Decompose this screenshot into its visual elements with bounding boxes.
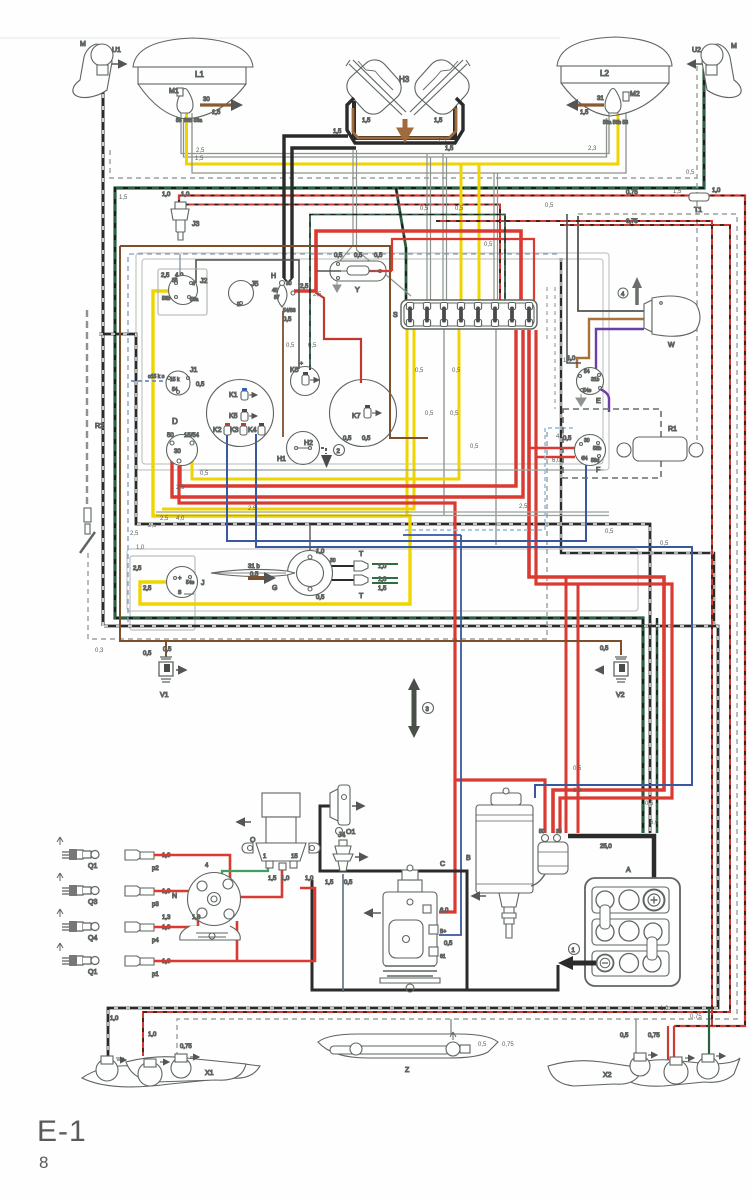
- wire red-black dashed inner right line: [436, 221, 712, 1026]
- svg-text:1,0: 1,0: [563, 358, 572, 364]
- svg-text:0,5: 0,5: [452, 368, 461, 374]
- svg-text:54: 54: [172, 387, 178, 393]
- svg-text:30: 30: [330, 558, 336, 564]
- svg-text:1,0: 1,0: [712, 188, 721, 194]
- svg-text:0,5: 0,5: [660, 541, 669, 547]
- wire light blue dashed to fuel gauge: [405, 428, 575, 530]
- svg-text:p1: p1: [152, 972, 159, 978]
- svg-text:X2: X2: [603, 1072, 612, 1079]
- connector V1: [143, 647, 186, 699]
- svg-text:T: T: [359, 551, 364, 558]
- wire red pair drop to tail X2: [668, 1026, 674, 1062]
- svg-text:K4: K4: [248, 427, 257, 434]
- brake light switch J3: [162, 192, 200, 240]
- svg-text:0,5: 0,5: [163, 647, 172, 653]
- svg-text:1,0: 1,0: [378, 577, 387, 583]
- fuel sender J: [133, 566, 205, 598]
- wire green-black dashed branch to starter area: [656, 618, 659, 833]
- svg-text:0,75: 0,75: [180, 1044, 192, 1050]
- wire green-black dashed K6 up to band across to fuse funnel: [310, 215, 505, 371]
- svg-text:6,0: 6,0: [440, 908, 449, 914]
- frame dashboard grey box: [136, 253, 609, 470]
- wire black-white dashed J1 loop to middle band and solenoid: [99, 334, 650, 833]
- svg-text:0,5: 0,5: [563, 436, 572, 442]
- svg-text:0,75: 0,75: [648, 1033, 660, 1039]
- svg-text:B: B: [466, 855, 471, 862]
- svg-text:1,5: 1,5: [362, 118, 371, 124]
- svg-text:31 b: 31 b: [248, 564, 260, 570]
- svg-text:0,75: 0,75: [626, 219, 638, 225]
- svg-text:Q4: Q4: [88, 935, 97, 942]
- svg-text:45: 45: [272, 288, 278, 294]
- svg-text:54/86: 54/86: [283, 308, 296, 314]
- switch J5: [229, 281, 259, 309]
- wire red-black dashed brake switch J3 to fuse T1 right edge down: [179, 196, 745, 1027]
- svg-text:15 k: 15 k: [170, 377, 180, 383]
- wire grey G top pin: [309, 524, 311, 551]
- svg-text:0,5: 0,5: [420, 206, 429, 212]
- ignition switch D: [167, 417, 200, 466]
- svg-text:M1: M1: [169, 88, 179, 95]
- svg-text:0,5: 0,5: [250, 572, 259, 578]
- wire red band to generator D+: [179, 466, 455, 912]
- svg-text:50: 50: [167, 433, 174, 439]
- svg-text:56a 56b 58: 56a 56b 58: [603, 120, 628, 126]
- svg-text:K6: K6: [290, 367, 299, 374]
- connector O1: [330, 785, 364, 836]
- wire red Y relay band to fuse 8: [392, 239, 534, 302]
- connectors T right of G: [354, 551, 387, 600]
- svg-text:0,75: 0,75: [502, 1042, 514, 1048]
- svg-text:1,0: 1,0: [136, 545, 145, 551]
- svg-text:30: 30: [174, 449, 181, 455]
- svg-text:15/54: 15/54: [184, 433, 200, 439]
- indicator K7: [330, 380, 397, 447]
- svg-text:2,5: 2,5: [300, 284, 309, 290]
- svg-text:0,75: 0,75: [626, 190, 638, 196]
- svg-text:S: S: [393, 312, 398, 319]
- svg-text:2,5: 2,5: [143, 586, 152, 592]
- svg-text:0,5: 0,5: [283, 317, 292, 323]
- wire red stubs into fuel gauge F: [529, 448, 575, 457]
- svg-text:K3: K3: [230, 427, 239, 434]
- wiper motor W: [644, 296, 700, 349]
- wire black horn H3 left leg to dimmer H: [354, 101, 455, 138]
- svg-text:0,75: 0,75: [690, 1014, 702, 1020]
- svg-text:1,0: 1,0: [305, 876, 314, 882]
- svg-text:0,5: 0,5: [470, 444, 479, 450]
- horn U2: [688, 43, 741, 98]
- generator C: [365, 861, 453, 992]
- svg-text:0,5: 0,5: [334, 253, 343, 259]
- wire green-black dashed top loop U2 to left side down to solenoid: [115, 68, 704, 833]
- svg-text:0,5: 0,5: [545, 203, 554, 209]
- svg-text:1,0: 1,0: [192, 915, 201, 921]
- BOTTOM COMPONENTS: [57, 785, 740, 1087]
- plug connector p2: [125, 850, 171, 872]
- svg-text:1,5: 1,5: [212, 110, 221, 116]
- tail lights X2: [548, 1033, 740, 1086]
- svg-text:W: W: [668, 342, 675, 349]
- wire red-black dashed right lower line to X1: [143, 225, 730, 1056]
- wire grey H3 legs down to fuse funnel: [340, 150, 411, 296]
- svg-text:2,5: 2,5: [130, 531, 139, 537]
- fuel gauge F: [563, 435, 606, 475]
- svg-text:56: 56: [172, 278, 178, 284]
- svg-text:0,5: 0,5: [286, 343, 295, 349]
- svg-text:J: J: [201, 580, 205, 587]
- svg-text:p3: p3: [152, 902, 159, 908]
- indicator K6: [290, 361, 320, 396]
- svg-text:1,5: 1,5: [333, 129, 342, 135]
- svg-text:0,5: 0,5: [478, 1042, 487, 1048]
- svg-text:58b: 58b: [593, 446, 602, 452]
- wire yellow fuse 5 exit to mid band: [162, 328, 414, 509]
- svg-text:30: 30: [584, 438, 590, 444]
- wire yellow M1 to M2: [187, 113, 619, 164]
- svg-text:D: D: [172, 417, 178, 426]
- svg-text:0,5: 0,5: [645, 801, 654, 807]
- svg-text:0,5: 0,5: [484, 242, 493, 248]
- wire red fuse 8 to starter loop outer: [529, 330, 664, 833]
- svg-text:58d: 58d: [591, 458, 600, 464]
- svg-text:O: O: [250, 837, 256, 844]
- svg-text:U1: U1: [112, 47, 121, 54]
- svg-text:61: 61: [440, 954, 446, 960]
- wire blue K2 drop to fuel gauge F: [227, 434, 586, 541]
- antenna R2: [80, 310, 104, 553]
- svg-text:1,0: 1,0: [110, 1016, 119, 1022]
- wiper switch E: [567, 356, 604, 406]
- svg-text:30: 30: [286, 281, 292, 287]
- svg-text:J3: J3: [192, 221, 200, 228]
- wire grey dark wiper feed and grey dashed right 0,75 line to X1: [578, 216, 644, 311]
- wire blue to generator B+: [403, 535, 461, 935]
- svg-text:1,0: 1,0: [162, 192, 171, 198]
- svg-text:2,5: 2,5: [160, 516, 169, 522]
- svg-text:1,0: 1,0: [660, 1006, 669, 1012]
- headlight L1: [133, 38, 253, 119]
- svg-text:58: 58: [176, 118, 182, 124]
- svg-text:2,5: 2,5: [148, 523, 157, 529]
- svg-text:F: F: [596, 467, 600, 474]
- svg-text:o15 k o: o15 k o: [148, 374, 165, 380]
- svg-text:50: 50: [539, 829, 545, 835]
- wire blue K4 long loop to right side starter: [256, 434, 692, 798]
- svg-text:0,5: 0,5: [196, 382, 205, 388]
- svg-text:1,0: 1,0: [378, 564, 387, 570]
- svg-text:+: +: [178, 576, 182, 582]
- svg-text:E-1: E-1: [37, 1115, 87, 1148]
- svg-text:0,5: 0,5: [444, 941, 453, 947]
- wire green drop to X2 right bulb: [708, 1008, 710, 1060]
- svg-text:25,0: 25,0: [600, 844, 612, 850]
- svg-text:K2: K2: [213, 427, 222, 434]
- wire brown stub V1: [165, 641, 167, 657]
- svg-text:54e: 54e: [186, 580, 195, 586]
- distributor N: [162, 863, 241, 940]
- wire grey mid band: [199, 469, 604, 471]
- svg-text:0,5: 0,5: [143, 651, 152, 657]
- svg-text:H: H: [271, 273, 276, 280]
- headlight L2: [557, 37, 672, 116]
- svg-text:p4: p4: [152, 938, 159, 944]
- svg-text:54: 54: [584, 369, 590, 375]
- wire labels scattered: [95, 138, 702, 1048]
- svg-text:J1: J1: [190, 367, 198, 374]
- relay J2: [158, 254, 208, 315]
- svg-text:0,5: 0,5: [425, 411, 434, 417]
- wire red-black dashed J3 second to fuse 6: [184, 205, 500, 302]
- starter B: [466, 788, 612, 938]
- horn U1: [73, 41, 126, 98]
- svg-text:R2: R2: [95, 423, 104, 430]
- svg-text:2,3: 2,3: [588, 146, 597, 152]
- wire grey J4 sender down: [342, 874, 344, 992]
- arrow 3 double: [408, 678, 434, 738]
- svg-text:2,5: 2,5: [176, 485, 185, 491]
- svg-text:0,5: 0,5: [354, 253, 363, 259]
- wire yellow ignition 15/54 to fuse 4: [192, 328, 459, 479]
- battery A: [585, 867, 680, 986]
- svg-text:K7: K7: [352, 413, 361, 420]
- wire grey dashed antenna lead R2 to radio R1: [88, 432, 547, 639]
- svg-text:C: C: [440, 861, 445, 868]
- svg-text:M2: M2: [630, 91, 640, 98]
- svg-text:0,5: 0,5: [620, 1033, 629, 1039]
- svg-text:H1: H1: [277, 456, 286, 463]
- svg-text:H3: H3: [399, 75, 410, 84]
- wire red ignition D 30 to fuse 7: [180, 330, 516, 486]
- instrument cluster big circle K1-K5: [207, 380, 274, 447]
- plug connector p3: [125, 886, 171, 908]
- svg-text:30: 30: [556, 829, 562, 835]
- wire black coil O1 down and right: [320, 806, 467, 990]
- wire black-white dashed from horn U1 down left side to bottom bundle: [102, 70, 105, 626]
- tail lights X1: [82, 1016, 260, 1087]
- svg-text:0,5: 0,5: [308, 343, 317, 349]
- wire black-white dashed lower frame line to right bundle: [104, 626, 718, 1056]
- svg-text:0,5: 0,5: [600, 646, 609, 652]
- sheet number E-1: [37, 1115, 87, 1172]
- wire yellow drops to fuse 4 and 5: [460, 164, 463, 301]
- svg-text:0,5: 0,5: [316, 595, 325, 601]
- svg-text:2,5: 2,5: [248, 506, 257, 512]
- wire brown band across to lamp switch area: [120, 246, 428, 438]
- svg-text:4,0: 4,0: [176, 516, 185, 522]
- svg-text:0,5: 0,5: [573, 766, 582, 772]
- svg-text:54e: 54e: [583, 388, 592, 394]
- dimmer switch H: [271, 273, 309, 323]
- svg-text:V1: V1: [160, 692, 169, 699]
- svg-text:N: N: [172, 893, 177, 900]
- bulb M2: [568, 89, 640, 127]
- svg-text:p2: p2: [152, 866, 159, 872]
- svg-text:6,0: 6,0: [573, 788, 582, 794]
- oil pressure sender J4: [325, 832, 367, 886]
- wire grey drop to X2 left bulb: [635, 1019, 637, 1057]
- ignition coil O: [237, 793, 320, 882]
- flasher relay Y: [317, 253, 392, 294]
- svg-text:0,5: 0,5: [200, 471, 209, 477]
- wire grey M1 to M2 top line: [181, 113, 609, 154]
- svg-text:56a: 56a: [190, 297, 199, 303]
- svg-text:1,3: 1,3: [162, 915, 171, 921]
- svg-text:15: 15: [291, 854, 298, 860]
- wire red fuse loop inner: [536, 330, 672, 833]
- spark plug Q4: [57, 909, 99, 942]
- wire red junction to solenoid: [455, 780, 545, 833]
- spark plug Q2: [57, 943, 99, 976]
- svg-text:2,5: 2,5: [133, 566, 142, 572]
- svg-text:0,5: 0,5: [362, 436, 371, 442]
- svg-text:1,5: 1,5: [325, 880, 334, 886]
- wire red thick dimmer H up to band across to fuse 7 8: [294, 231, 521, 302]
- svg-text:+: +: [300, 361, 303, 367]
- svg-text:30: 30: [203, 97, 210, 103]
- svg-text:E: E: [596, 398, 601, 405]
- svg-text:6,0: 6,0: [650, 820, 659, 826]
- svg-text:G: G: [272, 585, 277, 592]
- wire black coil to bottom to battery minus: [312, 880, 558, 990]
- svg-text:X1: X1: [205, 1070, 214, 1077]
- svg-text:1,5: 1,5: [445, 146, 454, 152]
- svg-text:2,5: 2,5: [313, 292, 322, 298]
- wire black solenoid 25.0 to battery plus: [568, 836, 654, 894]
- svg-text:Y: Y: [355, 287, 360, 294]
- svg-text:0,5: 0,5: [450, 411, 459, 417]
- wire black-white dashed vertical right of fuse box to starter area: [561, 258, 714, 626]
- svg-text:T: T: [359, 593, 364, 600]
- svg-text:J4: J4: [338, 832, 346, 839]
- spark plug Q3: [57, 873, 99, 906]
- spark plug Q1: [57, 837, 99, 870]
- svg-text:M: M: [80, 41, 86, 48]
- turn relay J1: [148, 367, 205, 395]
- wire grey pair mid band 2,5 4,0: [156, 512, 609, 516]
- svg-text:56b 56a: 56b 56a: [184, 118, 202, 124]
- svg-text:U2: U2: [692, 47, 701, 54]
- wire grey M1 lower line to M2: [192, 113, 626, 173]
- svg-text:d: d: [192, 281, 195, 287]
- svg-text:0,5: 0,5: [415, 368, 424, 374]
- wire brown left vertical down to V2: [120, 246, 621, 655]
- svg-text:K5: K5: [229, 413, 238, 420]
- arrow 4 wiper: [618, 277, 642, 305]
- wire green-black dashed into fuse 1 funnel: [396, 188, 406, 301]
- wire grey M1 to M2 second line: [184, 118, 607, 157]
- svg-text:Q1: Q1: [88, 969, 97, 976]
- svg-text:8: 8: [39, 1153, 48, 1172]
- WIRES LAYER: [88, 66, 745, 1062]
- svg-text:H2: H2: [304, 440, 313, 447]
- svg-text:31: 31: [597, 96, 604, 102]
- frame J fuel sender grey box: [130, 556, 195, 630]
- COMPONENT LAYER: [73, 37, 741, 738]
- svg-text:1,5: 1,5: [119, 195, 128, 201]
- svg-text:0,5: 0,5: [605, 529, 614, 535]
- svg-text:0,5: 0,5: [344, 880, 353, 886]
- wire grey pairs dropping into fuse box: [427, 154, 498, 302]
- svg-text:4,0: 4,0: [556, 434, 565, 440]
- svg-text:0,5: 0,5: [455, 206, 464, 212]
- svg-text:Q1: Q1: [88, 863, 97, 870]
- wire brown dimmer 54/86 down: [282, 311, 284, 437]
- wire grey fuse box lower exits: [444, 328, 496, 545]
- wire red plug leads to distributor: [154, 855, 315, 961]
- svg-text:2,5: 2,5: [196, 148, 205, 154]
- fuse T1: [626, 188, 721, 225]
- svg-text:1,0: 1,0: [148, 1032, 157, 1038]
- svg-text:J5: J5: [251, 281, 259, 288]
- svg-text:1,5: 1,5: [378, 586, 387, 592]
- svg-text:54: 54: [582, 456, 588, 462]
- svg-text:Q3: Q3: [88, 899, 97, 906]
- wire grey switch E terminal 54 up to band: [567, 214, 581, 363]
- frame G region grey box: [127, 549, 638, 611]
- svg-text:1,0: 1,0: [281, 876, 290, 882]
- svg-text:1,5: 1,5: [438, 138, 447, 144]
- svg-text:0,5: 0,5: [343, 436, 352, 442]
- arrow 1 battery ground: [558, 944, 596, 971]
- bulb M1: [169, 88, 241, 124]
- wire blue dashed feed to relay J1: [128, 380, 170, 382]
- svg-text:56b: 56b: [162, 296, 171, 302]
- wire brown wiper W to switch E: [577, 319, 644, 368]
- horns H3: [333, 55, 474, 152]
- wire yellow J2 long loop down to fuel sender J: [140, 291, 410, 604]
- wire black G to T connectors: [330, 566, 354, 580]
- radio R1 dashed box: [563, 409, 703, 478]
- interior light H1 H2: [277, 432, 320, 465]
- svg-text:R1: R1: [668, 426, 677, 433]
- plug connector p1: [125, 956, 171, 978]
- svg-text:1,5: 1,5: [434, 118, 443, 124]
- wire blue-grey dashed across middle: [128, 254, 560, 622]
- svg-text:A: A: [626, 867, 631, 874]
- svg-text:Z: Z: [405, 1067, 410, 1074]
- plug connector p4: [125, 922, 171, 944]
- license plate light Z: [318, 1032, 498, 1074]
- wire green T connector outputs: [372, 564, 398, 583]
- svg-text:0,5: 0,5: [374, 253, 383, 259]
- svg-text:1,5: 1,5: [580, 110, 589, 116]
- wire grey dashed antenna line across top to horn U2: [110, 66, 697, 440]
- svg-text:2,5: 2,5: [161, 273, 170, 279]
- wire red ignition D 50 to fuse 8: [172, 330, 523, 497]
- svg-text:L2: L2: [600, 69, 609, 78]
- wire red pair middle drop to solenoid: [566, 577, 578, 833]
- svg-text:1,5: 1,5: [268, 876, 277, 882]
- svg-text:87: 87: [274, 295, 280, 301]
- wire grey drop to Z: [450, 1019, 452, 1040]
- svg-text:V2: V2: [616, 692, 625, 699]
- wire grey dark K6 left feed from relay J2: [196, 260, 299, 369]
- svg-text:1,5: 1,5: [673, 189, 682, 195]
- svg-text:L1: L1: [195, 70, 204, 79]
- wire green distributor to coil terminal 1: [222, 866, 268, 879]
- svg-text:K1: K1: [229, 392, 238, 399]
- svg-text:0,5: 0,5: [686, 170, 695, 176]
- wire red distributor to coil: [236, 868, 282, 897]
- svg-text:1,0: 1,0: [181, 192, 190, 198]
- svg-text:O1: O1: [346, 829, 355, 836]
- svg-text:6,0: 6,0: [552, 458, 561, 464]
- svg-text:2,5: 2,5: [519, 504, 528, 510]
- svg-text:31b: 31b: [591, 377, 600, 383]
- svg-text:0,3: 0,3: [95, 648, 104, 654]
- svg-text:B+: B+: [440, 929, 446, 935]
